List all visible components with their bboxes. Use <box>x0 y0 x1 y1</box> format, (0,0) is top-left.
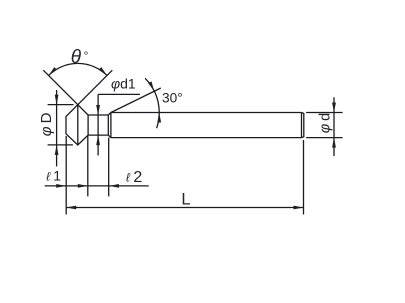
theta ray left <box>43 70 78 105</box>
shank start edge <box>110 113 112 138</box>
arrow phid1 top <box>96 105 100 115</box>
l1 l2 dim line <box>45 185 149 187</box>
ext line head left <box>65 136 67 215</box>
arrow phiD top <box>55 95 59 105</box>
ext line shank end <box>303 140 305 215</box>
shank end chamfer edge <box>301 113 303 138</box>
shank end face <box>302 113 304 138</box>
theta arc <box>49 63 107 75</box>
arrow theta arc right end <box>99 67 107 75</box>
svg-text:φd: φd <box>317 110 333 133</box>
head outline (cutter body) <box>66 105 88 145</box>
arrow phiD bottom <box>55 145 59 155</box>
svg-text:2: 2 <box>133 169 142 186</box>
svg-text:°: ° <box>84 49 89 63</box>
theta ray right <box>78 70 113 105</box>
phi d ext top <box>306 112 343 114</box>
chamfer 30 top <box>108 113 111 116</box>
phi d1 dim line <box>97 94 99 155</box>
30deg ray <box>111 88 161 113</box>
arrow phid1 bottom <box>96 135 100 145</box>
arrow l1 left <box>56 184 66 188</box>
phi d ext bottom <box>306 137 343 139</box>
svg-text:30°: 30° <box>162 91 183 106</box>
arrow phid top <box>332 103 336 113</box>
phi D ext bottom <box>48 144 73 146</box>
arrow phid bottom <box>332 138 336 148</box>
shank top <box>111 112 302 114</box>
arrow 30 arc top <box>148 81 154 91</box>
arrow L left <box>66 206 76 210</box>
svg-text:L: L <box>181 190 190 208</box>
svg-text:φD: φD <box>38 110 55 137</box>
L dim line <box>66 207 303 209</box>
chamfer 30 bottom <box>108 135 111 138</box>
30deg arc <box>145 78 159 128</box>
svg-text:1: 1 <box>53 167 61 183</box>
arrow 30 arc bottom <box>157 113 161 123</box>
svg-text:θ: θ <box>71 47 82 68</box>
phi d1 leader <box>98 93 140 95</box>
shank bottom <box>111 137 302 139</box>
neck end edge <box>107 115 109 135</box>
arrow l2 left <box>78 184 88 188</box>
arrow l2 right <box>109 184 119 188</box>
neck bottom <box>88 134 108 136</box>
arrow L right <box>294 206 304 210</box>
arrow theta arc left end <box>49 67 57 75</box>
head cutting-edge centerline <box>77 105 79 145</box>
phi d dim line <box>333 97 335 156</box>
phi D ext top <box>48 104 74 106</box>
neck top <box>88 114 108 116</box>
svg-text:φd1: φd1 <box>111 76 136 92</box>
phi D dim line <box>56 90 58 166</box>
ext line neck start <box>87 136 89 196</box>
ext line neck end <box>108 138 110 197</box>
